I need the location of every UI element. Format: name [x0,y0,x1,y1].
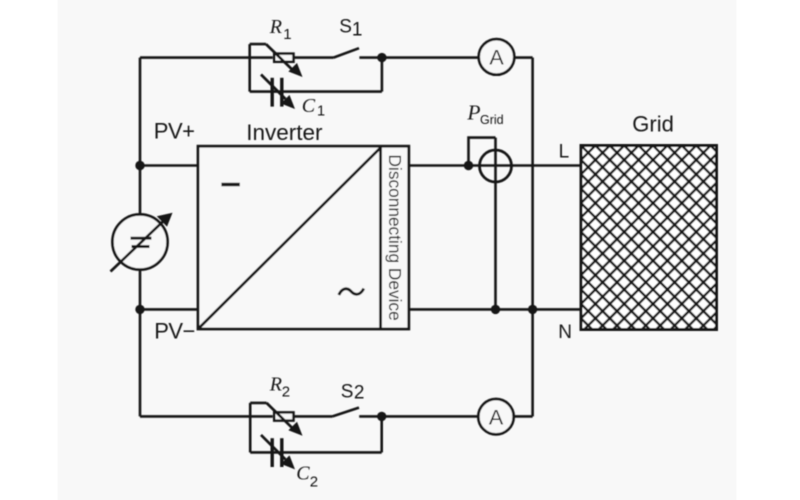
svg-text:1: 1 [352,20,363,41]
ammeter A bottom [478,399,513,434]
svg-text:1: 1 [317,104,325,120]
switch S1 [334,48,360,57]
wire R2C2 loop right vertical [380,416,383,452]
resistor R2 arrow tail [250,402,266,405]
wire R1C1 loop bottom [250,90,382,93]
wire bottom branch horizontal left of R2 [140,415,273,418]
svg-text:Inverter: Inverter [246,120,323,145]
node junction R2C2 right [377,412,386,421]
switch S2 [333,408,360,417]
svg-text:P: P [466,101,480,125]
svg-text:S: S [341,381,354,402]
ammeter A top [479,39,515,75]
label C2 [296,463,318,491]
node wattmeter on N [491,305,500,314]
wire top branch horizontal left of R1 [140,56,273,59]
label R2 [269,373,290,400]
grid box [581,146,717,330]
svg-text:Grid: Grid [632,112,674,137]
wire PV- to inverter [140,308,198,311]
wire right vertical bus [531,58,534,417]
wire R1C1 loop right vertical [381,58,384,92]
svg-text:PV+: PV+ [154,118,195,143]
wire PV+ to inverter [140,164,198,167]
svg-text:R: R [269,373,282,395]
inverter U1 box [198,146,409,329]
svg-text:2: 2 [282,384,290,401]
wire R1C1 loop left vertical [248,44,251,92]
wire N line inverter to grid [409,308,581,311]
svg-text:A: A [489,406,504,430]
svg-text:1: 1 [283,26,291,43]
svg-text:C: C [302,95,316,117]
svg-text:Grid: Grid [480,113,504,127]
node wattmeter voltage tap on L [464,161,473,170]
svg-text:Disconnecting Device: Disconnecting Device [385,155,405,321]
resistor R1 arrow tail [250,43,266,46]
wire top branch R1 to S1 [295,56,334,59]
wire top branch ammeter to right corner [514,56,532,59]
capacitor C1 [261,75,295,110]
svg-text:C: C [296,463,310,485]
label C1 [302,95,325,119]
disconnecting device divider [379,146,382,329]
node PV+ junction [135,161,144,170]
node right bus on N [528,305,537,314]
wire bottom branch R2 to S2 [295,415,333,418]
wire L line inverter to grid [409,164,581,167]
capacitor C2 [261,435,295,470]
svg-text:L: L [559,141,570,162]
svg-text:N: N [558,322,572,343]
svg-text:R: R [269,16,282,38]
svg-text:2: 2 [310,473,318,490]
resistor R1 [266,44,303,77]
inverter DC minus symbol [221,183,239,187]
node junction R1C1 right [377,53,386,62]
node PV- junction [135,305,144,314]
wire R2C2 loop bottom [250,451,382,454]
label R1 [269,16,292,43]
wire bottom branch S2 to ammeter [359,415,478,418]
wire top branch S1 to ammeter [359,56,478,59]
svg-text:PV−: PV− [154,318,195,343]
wire left DC bus lower segment [139,270,142,417]
svg-text:2: 2 [354,383,365,404]
wattmeter P_Grid [469,138,512,310]
wire bottom branch ammeter to right corner [514,415,533,418]
svg-text:S: S [339,16,352,37]
inverter AC tilde symbol [339,289,364,296]
wire left DC bus upper segment [139,58,142,215]
label P_Grid [466,101,503,128]
resistor R2 [267,403,303,436]
PV simulator source [111,213,173,272]
wire R2C2 loop left vertical [249,403,252,453]
svg-text:A: A [489,46,504,70]
